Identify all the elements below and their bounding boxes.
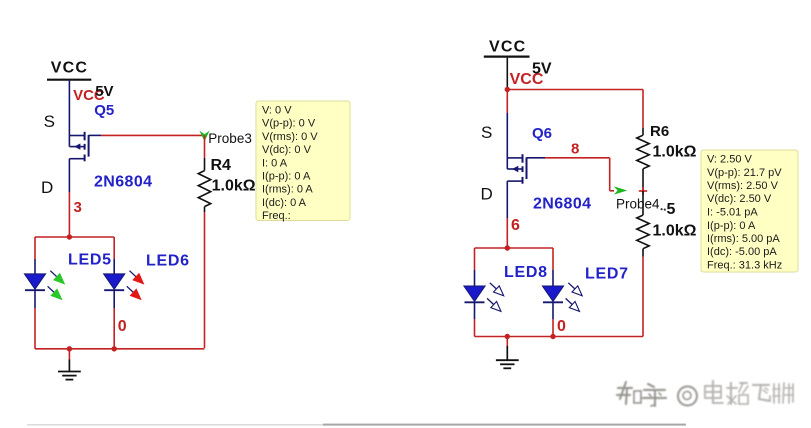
svg-text:I(rms): 0 A: I(rms): 0 A <box>262 184 313 196</box>
svg-text:2N6804: 2N6804 <box>533 196 591 213</box>
svg-text:VCC: VCC <box>489 39 526 56</box>
LED LED5 (green) <box>24 274 45 289</box>
svg-text:Freq.: 31.3 kHz: Freq.: 31.3 kHz <box>707 260 782 272</box>
wire LED6 branch <box>113 237 115 259</box>
wire LED top rail left <box>35 236 114 238</box>
svg-text:V(rms): 2.50 V: V(rms): 2.50 V <box>707 180 779 192</box>
node Q6 drain junction <box>505 245 510 250</box>
probe Probe3 arrow <box>199 131 209 142</box>
svg-text:6: 6 <box>511 217 520 234</box>
node Q5 drain junction <box>67 234 72 239</box>
svg-text:I(p-p): 0 A: I(p-p): 0 A <box>262 171 311 183</box>
svg-text:0: 0 <box>557 318 566 335</box>
node ground junction left <box>67 346 72 351</box>
resistor R4 <box>198 171 210 207</box>
wire R5 to bottom rail <box>642 249 644 257</box>
probe contact cross <box>639 190 647 192</box>
svg-text:5V: 5V <box>95 83 113 100</box>
wire junction to R5 <box>642 191 644 215</box>
wire VCC to Q5 source <box>68 80 70 136</box>
wire VCC to R6 <box>507 89 643 91</box>
wire LED8 branch <box>474 248 476 270</box>
node LED7 junction right <box>550 334 555 339</box>
svg-text:V: 2.50 V: V: 2.50 V <box>707 154 753 166</box>
svg-text:I: -5.01 pA: I: -5.01 pA <box>707 207 758 219</box>
svg-text:3: 3 <box>74 199 82 216</box>
svg-text:I(rms): 5.00 pA: I(rms): 5.00 pA <box>707 233 780 245</box>
svg-text:0: 0 <box>118 318 127 335</box>
wire R6 to junction <box>642 169 644 191</box>
wire Q5 gate to node <box>89 134 101 136</box>
svg-text:2N6804: 2N6804 <box>94 173 152 190</box>
wire node to R4 <box>204 135 206 158</box>
svg-text:V(p-p): 0 V: V(p-p): 0 V <box>262 118 316 130</box>
svg-text:LED8: LED8 <box>504 264 548 281</box>
svg-text:V: 0 V: V: 0 V <box>262 105 292 117</box>
svg-text:I(dc): 0 A: I(dc): 0 A <box>262 197 307 209</box>
svg-text:Q5: Q5 <box>94 102 114 119</box>
svg-text:I: 0 A: I: 0 A <box>262 157 288 169</box>
svg-text:V(p-p): 21.7 pV: V(p-p): 21.7 pV <box>707 167 782 179</box>
svg-text:1.0kΩ: 1.0kΩ <box>653 144 697 161</box>
svg-text:1.0kΩ: 1.0kΩ <box>212 178 256 195</box>
svg-text:V(rms): 0 V: V(rms): 0 V <box>262 131 318 143</box>
probe4 measurement box <box>701 150 798 272</box>
VCC symbol left <box>47 79 91 81</box>
probe3 measurement box <box>256 101 350 221</box>
wire VCC to Q6 source <box>506 90 508 114</box>
svg-text:LED7: LED7 <box>585 265 629 282</box>
node ground junction right <box>505 334 510 339</box>
bottom separator line <box>27 424 323 426</box>
svg-text:I(dc): -5.00 pA: I(dc): -5.00 pA <box>707 246 777 258</box>
transistor Q5 <box>69 135 84 137</box>
svg-text:Probe4: Probe4 <box>616 197 660 212</box>
ground left <box>68 349 70 360</box>
svg-text:LED6: LED6 <box>146 253 190 270</box>
wire R4 to bottom rail <box>204 207 206 213</box>
wire LED7 branch <box>552 248 554 270</box>
svg-text:Freq.:: Freq.: <box>262 210 291 222</box>
transistor Q6 <box>507 157 522 159</box>
svg-text:I(p-p): 0 A: I(p-p): 0 A <box>707 220 756 232</box>
svg-text:Probe3: Probe3 <box>208 131 252 146</box>
watermark zhihu <box>617 381 795 408</box>
wire Q6 gate to probe <box>527 157 546 159</box>
svg-text:S: S <box>44 112 55 131</box>
svg-text:5V: 5V <box>532 61 552 78</box>
resistor R6 <box>637 135 649 169</box>
resistor R5 <box>637 215 649 249</box>
svg-text:D: D <box>481 185 493 204</box>
probe Probe4 arrow <box>614 186 627 194</box>
svg-text:D: D <box>41 178 53 197</box>
ground right <box>506 337 508 347</box>
wire LED top rail right <box>475 247 554 249</box>
VCC symbol right <box>484 55 530 57</box>
LED LED8 (off) <box>464 286 485 301</box>
node VCC junction right <box>505 87 510 92</box>
svg-text:Q6: Q6 <box>532 125 552 142</box>
svg-text:LED5: LED5 <box>68 252 112 269</box>
svg-text:1.0kΩ: 1.0kΩ <box>653 223 697 240</box>
wire VCC stem right <box>506 58 508 90</box>
label R5 partial (5) <box>661 208 663 210</box>
svg-text:R4: R4 <box>211 157 232 174</box>
LED LED7 (off) <box>542 286 563 301</box>
svg-text:S: S <box>481 123 492 142</box>
svg-text:V(dc): 2.50 V: V(dc): 2.50 V <box>707 193 772 205</box>
node LED6 junction <box>112 346 117 351</box>
svg-text:V(dc): 0 V: V(dc): 0 V <box>262 144 312 156</box>
svg-text:8: 8 <box>571 141 579 158</box>
svg-text:5: 5 <box>667 201 676 218</box>
svg-text:VCC: VCC <box>51 59 88 76</box>
wire Q6 drain <box>506 181 508 218</box>
wire LED5 branch <box>34 237 36 259</box>
LED LED6 (red) <box>104 274 125 289</box>
svg-text:R6: R6 <box>650 123 669 140</box>
wire Q5 drain <box>68 159 70 192</box>
